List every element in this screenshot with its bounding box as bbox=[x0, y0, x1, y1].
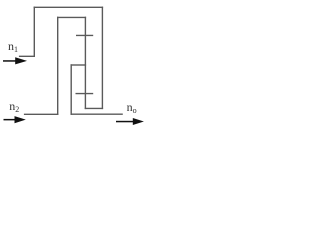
arrow n1 bbox=[3, 57, 27, 64]
label no bbox=[127, 100, 137, 115]
wire n1 input segment bbox=[20, 55, 35, 57]
junction J2 tick bbox=[76, 93, 92, 95]
arrow no bbox=[116, 118, 144, 125]
wire inner left vertical bbox=[57, 17, 59, 114]
wire bottom of right U bbox=[85, 107, 102, 109]
wire inner top horizontal bbox=[58, 16, 86, 18]
arrow n2 bbox=[4, 116, 26, 123]
wire left outer vertical bbox=[33, 7, 35, 56]
wire no output segment bbox=[71, 113, 122, 115]
wire right outer vertical bbox=[101, 7, 103, 108]
wire inner vertical center bbox=[84, 17, 86, 108]
wire top horizontal bbox=[34, 6, 102, 8]
label n1 bbox=[8, 39, 18, 54]
label n2 bbox=[9, 99, 19, 114]
junction J1 tick bbox=[77, 34, 93, 36]
wire stub horizontal to center bbox=[71, 64, 85, 66]
wire inner right vertical bbox=[70, 65, 72, 114]
wire n2 input segment bbox=[25, 113, 58, 115]
